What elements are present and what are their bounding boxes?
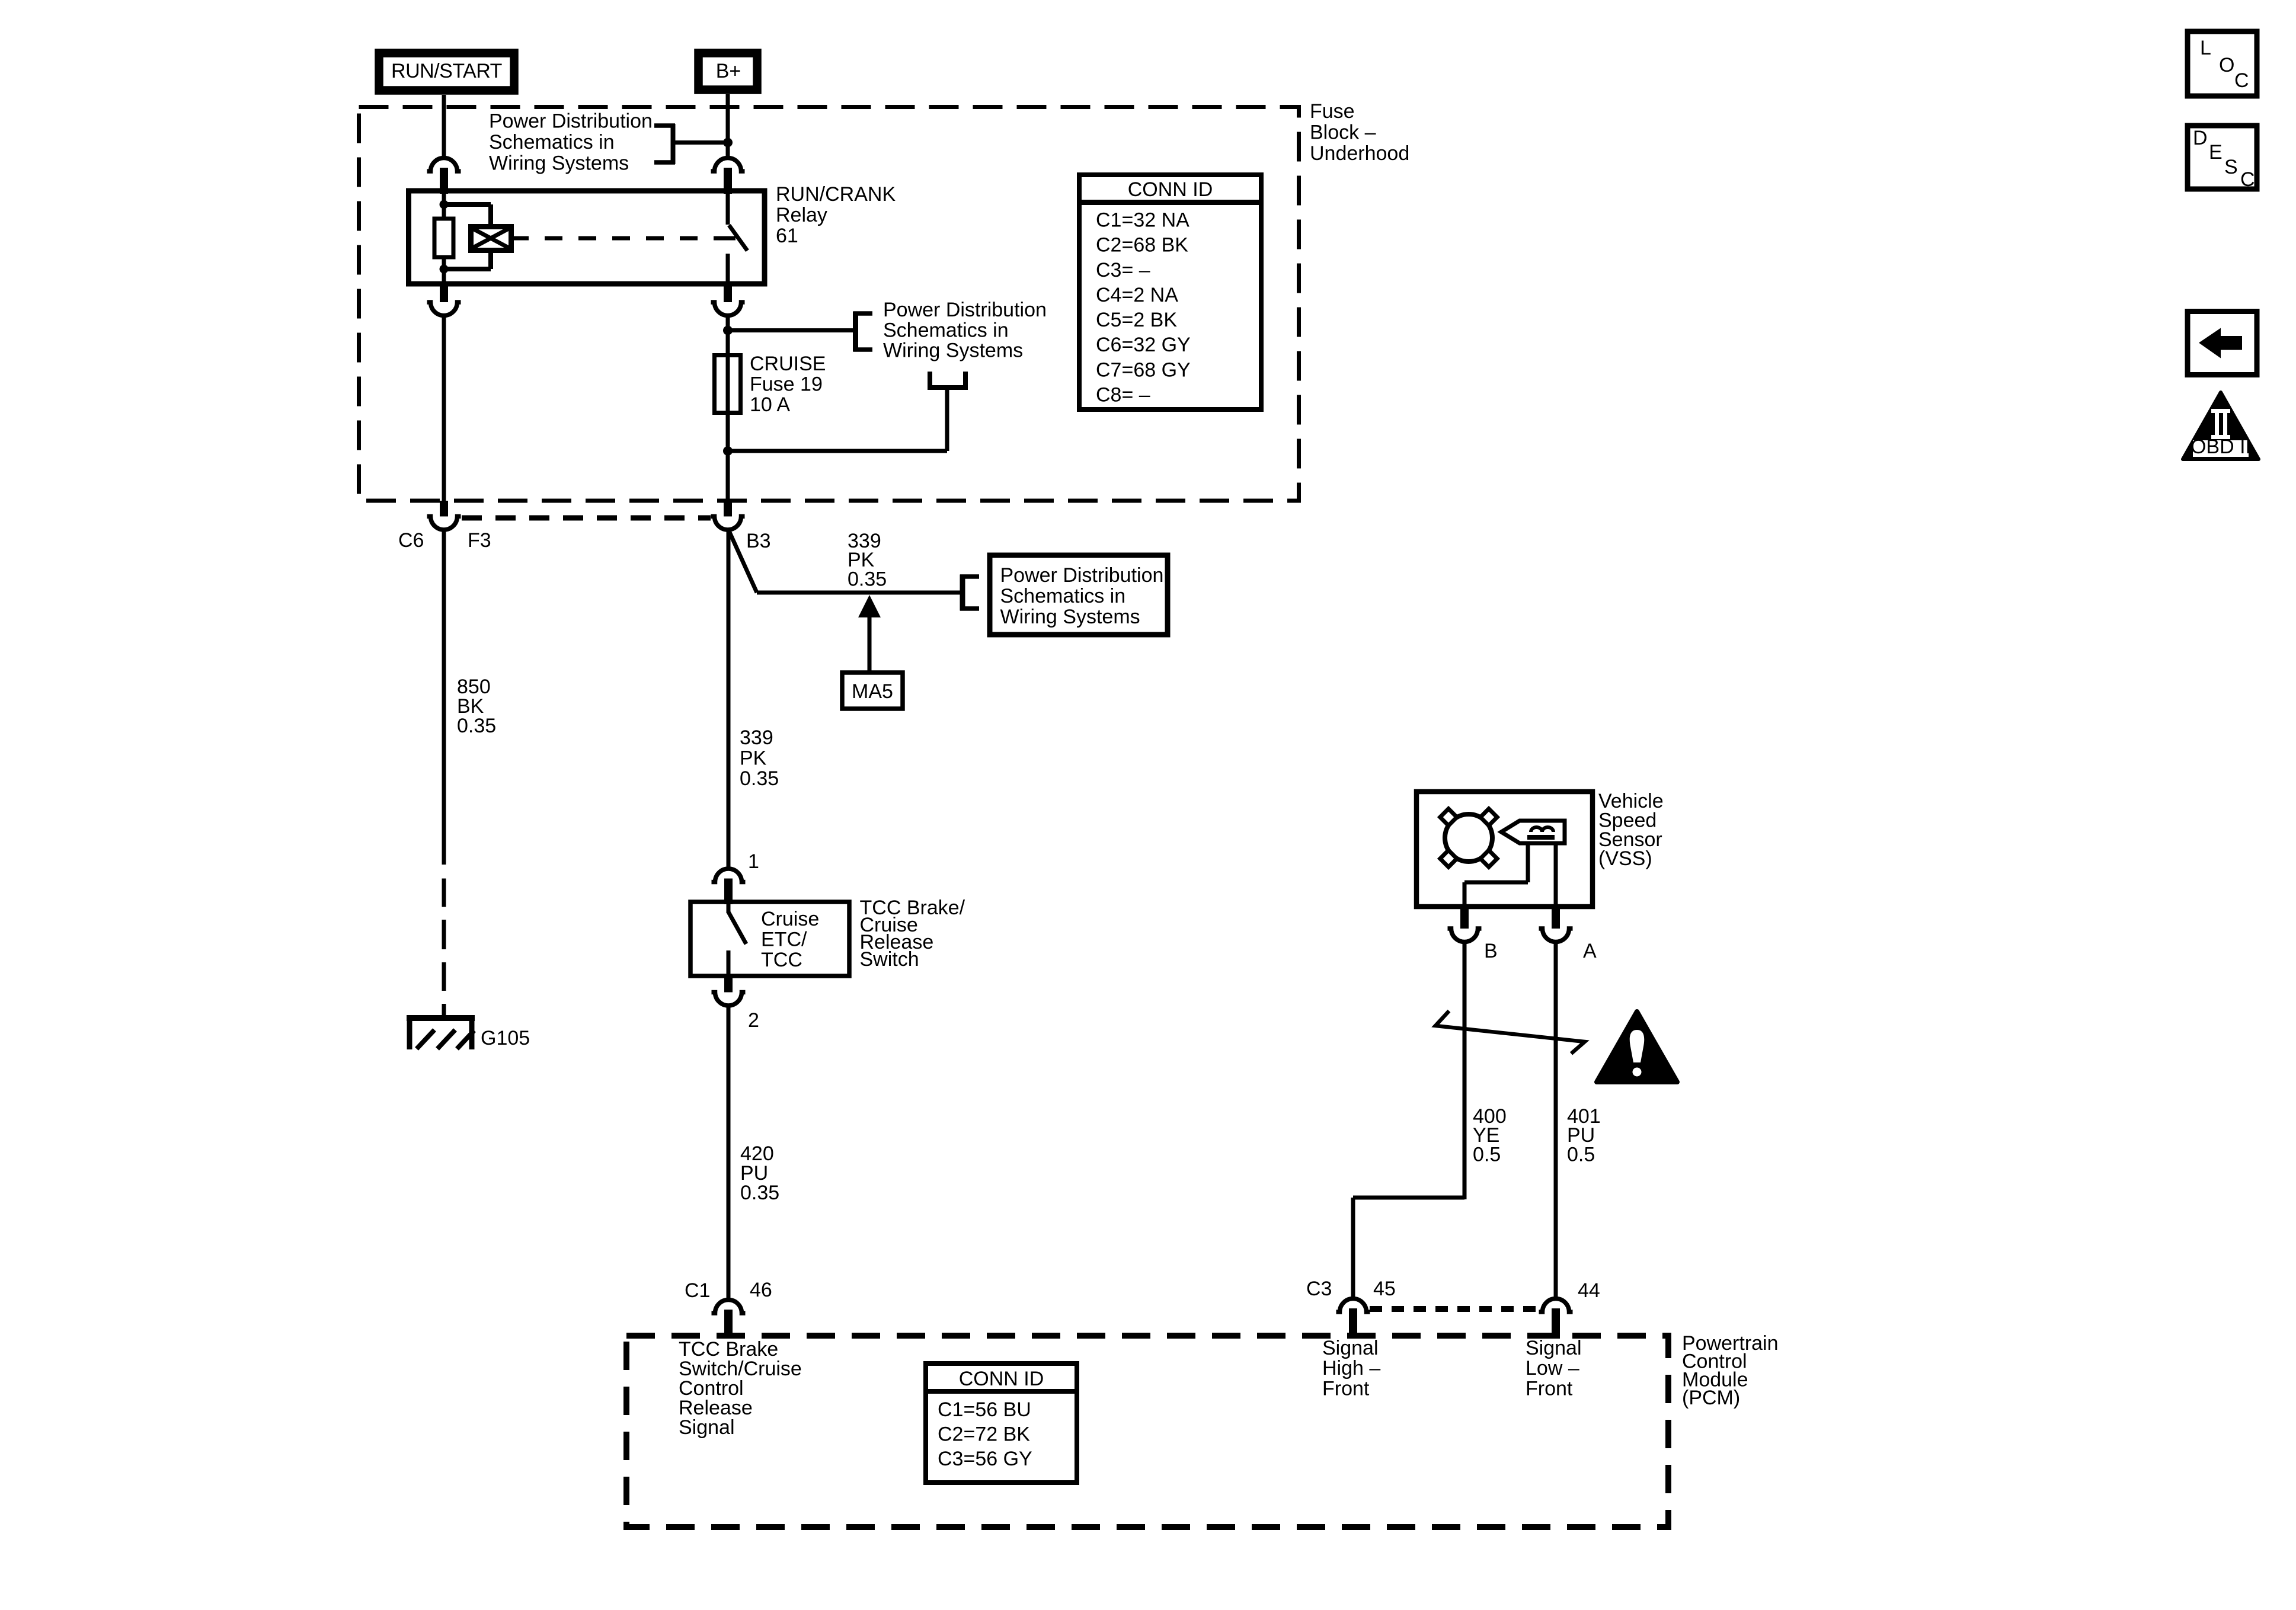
svg-text:Wiring Systems: Wiring Systems — [489, 152, 629, 175]
svg-text:Signal: Signal — [679, 1416, 735, 1439]
svg-text:Fuse: Fuse — [1310, 100, 1355, 123]
svg-text:Wiring Systems: Wiring Systems — [1000, 606, 1140, 628]
label 420 PU 0.35 — [740, 1142, 779, 1204]
svg-text:Low –: Low – — [1526, 1357, 1579, 1379]
label TCC Brake Switch/Cruise Control Release Signal — [679, 1338, 802, 1439]
connector PCM pin 45 — [1336, 1299, 1370, 1339]
wire 401 PU from VSS A — [1554, 943, 1558, 1298]
svg-text:C2=72 BK: C2=72 BK — [938, 1423, 1030, 1446]
svg-text:(PCM): (PCM) — [1682, 1387, 1740, 1409]
svg-text:Signal: Signal — [1526, 1337, 1582, 1359]
svg-text:0.5: 0.5 — [1567, 1143, 1595, 1166]
svg-text:Schematics in: Schematics in — [1000, 585, 1126, 607]
label CRUISE Fuse 19 10 A — [750, 353, 826, 416]
node relay coil top junction — [440, 200, 449, 209]
fuse CRUISE Fuse 19 10A — [715, 356, 741, 413]
svg-text:Relay: Relay — [776, 204, 827, 226]
VSS reluctor wheel symbol — [1440, 809, 1497, 867]
label pin 2 — [748, 1009, 759, 1032]
wire dashed to ground G105 — [442, 879, 446, 1017]
callout bracket power distribution 1 — [654, 124, 728, 164]
icon back arrow box — [2188, 312, 2257, 375]
svg-text:RUN/START: RUN/START — [391, 60, 502, 82]
svg-text:0.35: 0.35 — [740, 767, 779, 790]
connector VSS terminal B — [1448, 907, 1482, 942]
label terminal A — [1583, 940, 1597, 962]
label Cruise ETC/TCC — [761, 908, 819, 971]
svg-text:0.35: 0.35 — [848, 568, 887, 590]
VSS pickup coil symbol — [1501, 821, 1565, 843]
svg-text:RUN/CRANK: RUN/CRANK — [776, 183, 896, 206]
wire B3 branch diagonal — [729, 531, 960, 593]
label 400 YE 0.5 — [1473, 1105, 1507, 1166]
label 45 — [1373, 1278, 1396, 1300]
svg-text:Schematics in: Schematics in — [489, 131, 615, 153]
callout bracket continuation under text 2 — [928, 372, 968, 390]
label C6 — [398, 529, 424, 552]
label Signal Low Front — [1526, 1337, 1582, 1400]
wire dotted connector line C6 to B3 — [462, 516, 711, 521]
label power distribution schematics 2 — [883, 299, 1047, 362]
svg-text:G105: G105 — [481, 1027, 530, 1049]
svg-text:C3: C3 — [1306, 1278, 1332, 1300]
svg-text:1: 1 — [748, 850, 759, 873]
label RUN/CRANK Relay 61 — [776, 183, 896, 247]
icon OBD II triangle — [2183, 392, 2259, 459]
wire 339 PK to switch pin 1 — [727, 531, 731, 867]
svg-text:(VSS): (VSS) — [1598, 847, 1652, 870]
powertrain control module dashed enclosure — [626, 1336, 1668, 1527]
svg-text:C3= –: C3= – — [1096, 259, 1150, 281]
label Fuse Block - Underhood — [1310, 100, 1409, 165]
label Powertrain Control Module (PCM) — [1682, 1332, 1779, 1409]
label 339 PK 0.35 branch — [848, 530, 887, 590]
svg-text:C1=56 BU: C1=56 BU — [938, 1398, 1031, 1421]
svg-text:TCC: TCC — [761, 949, 802, 971]
svg-text:0.35: 0.35 — [740, 1182, 779, 1204]
svg-text:Power Distribution: Power Distribution — [489, 110, 653, 133]
callout bracket power distribution 3 — [960, 575, 979, 611]
power feed terminal RUN/START — [379, 53, 514, 91]
svg-text:2: 2 — [748, 1009, 759, 1032]
wire 400 YE from VSS B — [1463, 943, 1467, 1199]
relay switch contact — [728, 191, 747, 284]
svg-text:CONN ID: CONN ID — [959, 1368, 1044, 1390]
svg-text:F3: F3 — [468, 529, 491, 552]
svg-text:CRUISE: CRUISE — [750, 353, 826, 375]
connector terminal at relay pin 86 side — [427, 158, 461, 194]
svg-text:Underhood: Underhood — [1310, 142, 1409, 165]
svg-text:Signal: Signal — [1322, 1337, 1379, 1359]
wire relay 87 to fuse — [726, 316, 730, 356]
table CONN ID PCM — [926, 1363, 1077, 1483]
connector PCM pin 46 — [712, 1300, 746, 1339]
label terminal B — [1484, 940, 1498, 962]
connector VSS terminal A — [1539, 907, 1573, 942]
svg-text:B: B — [1484, 940, 1498, 962]
svg-text:C: C — [2234, 69, 2249, 92]
svg-text:Cruise: Cruise — [761, 908, 819, 930]
wire dotted connector line 45 to 44 — [1370, 1306, 1540, 1312]
node fuse top junction — [723, 326, 853, 335]
svg-text:C4=2 NA: C4=2 NA — [1096, 284, 1178, 306]
svg-text:C1: C1 — [685, 1279, 710, 1302]
svg-text:Power Distribution: Power Distribution — [1000, 564, 1164, 587]
wire 400 YE jog — [1353, 1198, 1464, 1298]
svg-text:44: 44 — [1578, 1279, 1600, 1302]
svg-text:O: O — [2219, 54, 2234, 76]
connector terminal at relay pin 30 side — [711, 158, 745, 194]
svg-text:Switch: Switch — [860, 948, 919, 971]
icon DESC box — [2188, 126, 2257, 191]
svg-text:C: C — [2240, 168, 2255, 191]
label C1 — [685, 1279, 710, 1302]
warning note triangle — [1597, 1012, 1677, 1082]
svg-text:S: S — [2224, 156, 2238, 178]
wire B+ feed into fuse block — [726, 94, 730, 156]
connector switch pin 2 — [712, 976, 746, 1006]
svg-text:C2=68 BK: C2=68 BK — [1096, 234, 1188, 257]
twisted pair marker — [1435, 1011, 1585, 1054]
label TCC Brake/Cruise Release Switch — [860, 897, 965, 971]
svg-text:Front: Front — [1526, 1377, 1573, 1400]
label 401 PU 0.5 — [1567, 1105, 1601, 1166]
label Vehicle Speed Sensor (VSS) — [1598, 790, 1664, 870]
callout bracket power distribution 2 — [853, 312, 872, 352]
label power distribution schematics 1 — [489, 110, 653, 175]
wire 420 PU to PCM — [727, 1007, 731, 1298]
svg-text:Block –: Block – — [1310, 121, 1376, 144]
svg-text:ETC/: ETC/ — [761, 929, 807, 951]
connector switch pin 1 — [712, 869, 746, 904]
label 46 — [750, 1279, 772, 1301]
svg-text:Wiring Systems: Wiring Systems — [883, 340, 1023, 362]
relay RUN/CRANK 61 outline — [409, 191, 765, 284]
connector terminal relay 87 output — [711, 284, 745, 316]
ground G105 symbol — [407, 1018, 475, 1049]
relay actuator dashed link — [511, 236, 737, 241]
svg-text:C1=32 NA: C1=32 NA — [1096, 209, 1189, 232]
svg-text:0.5: 0.5 — [1473, 1143, 1501, 1166]
node relay coil bottom junction — [440, 265, 449, 274]
svg-text:CONN ID: CONN ID — [1128, 178, 1213, 201]
svg-text:339: 339 — [740, 726, 773, 749]
relay coil winding symbol — [471, 227, 511, 251]
svg-text:High –: High – — [1322, 1357, 1380, 1379]
wire RUN/START feed into fuse block — [442, 95, 446, 156]
svg-text:C7=68 GY: C7=68 GY — [1096, 359, 1191, 381]
grid box MA5 — [842, 673, 903, 709]
wire coil branch bottom — [444, 250, 491, 269]
label F3 — [468, 529, 491, 552]
svg-text:MA5: MA5 — [852, 680, 893, 703]
svg-text:Fuse 19: Fuse 19 — [750, 373, 823, 396]
svg-text:OBD II: OBD II — [2191, 436, 2251, 458]
node fuse bottom junction — [723, 388, 947, 456]
svg-text:C3=56 GY: C3=56 GY — [938, 1448, 1032, 1470]
label C3 — [1306, 1278, 1332, 1300]
connector PCM pin 44 — [1539, 1299, 1573, 1339]
label pin 1 — [748, 850, 759, 873]
svg-text:Power Distribution: Power Distribution — [883, 299, 1047, 321]
wire coil branch top — [444, 204, 491, 227]
wire relay coil return — [442, 269, 446, 284]
svg-text:45: 45 — [1373, 1278, 1396, 1300]
switch TCC brake/cruise release outline — [690, 902, 849, 976]
svg-text:61: 61 — [776, 225, 798, 247]
wire 850 BK from C6 — [442, 531, 446, 865]
wire fuse output — [726, 412, 730, 501]
svg-text:E: E — [2209, 141, 2223, 164]
label 850 BK 0.35 — [457, 676, 496, 737]
icon LOC box — [2188, 31, 2257, 96]
vehicle speed sensor outline — [1416, 792, 1593, 907]
connector B3 at fuse block bottom — [711, 501, 745, 530]
svg-text:Front: Front — [1322, 1377, 1370, 1400]
node B+ junction to callout — [723, 138, 733, 148]
svg-text:Schematics in: Schematics in — [883, 319, 1009, 341]
fuse block underhood dashed enclosure — [359, 107, 1299, 501]
svg-text:B3: B3 — [746, 530, 771, 552]
svg-text:D: D — [2193, 127, 2208, 149]
resistor relay suppression element — [434, 204, 453, 270]
label 44 — [1578, 1279, 1600, 1302]
connector C6/F3 at fuse block bottom — [427, 501, 461, 530]
wire relay output to C6 — [442, 316, 446, 501]
svg-text:A: A — [1583, 940, 1597, 962]
connector terminal relay 85 output — [427, 284, 461, 316]
svg-text:PK: PK — [740, 747, 767, 770]
label 339 PK 0.35 main — [740, 726, 779, 790]
label B3 — [746, 530, 771, 552]
svg-text:B+: B+ — [716, 60, 741, 82]
VSS internal wiring — [1464, 842, 1556, 907]
label Signal High Front — [1322, 1337, 1380, 1400]
callout box power distribution 3 — [990, 555, 1168, 635]
wire relay coil feed — [442, 191, 446, 206]
svg-text:0.35: 0.35 — [457, 715, 496, 737]
svg-text:46: 46 — [750, 1279, 772, 1301]
table CONN ID fuse block — [1079, 175, 1261, 409]
arrow MA5 pointer — [858, 595, 881, 671]
svg-text:C6=32 GY: C6=32 GY — [1096, 334, 1191, 356]
switch contact inside — [728, 902, 746, 976]
svg-text:C5=2 BK: C5=2 BK — [1096, 309, 1177, 331]
svg-text:C8= –: C8= – — [1096, 384, 1150, 406]
svg-text:10 A: 10 A — [750, 393, 790, 416]
svg-text:L: L — [2200, 37, 2211, 59]
power feed terminal B+ — [699, 53, 757, 90]
label G105 — [481, 1027, 530, 1049]
svg-text:C6: C6 — [398, 529, 424, 552]
